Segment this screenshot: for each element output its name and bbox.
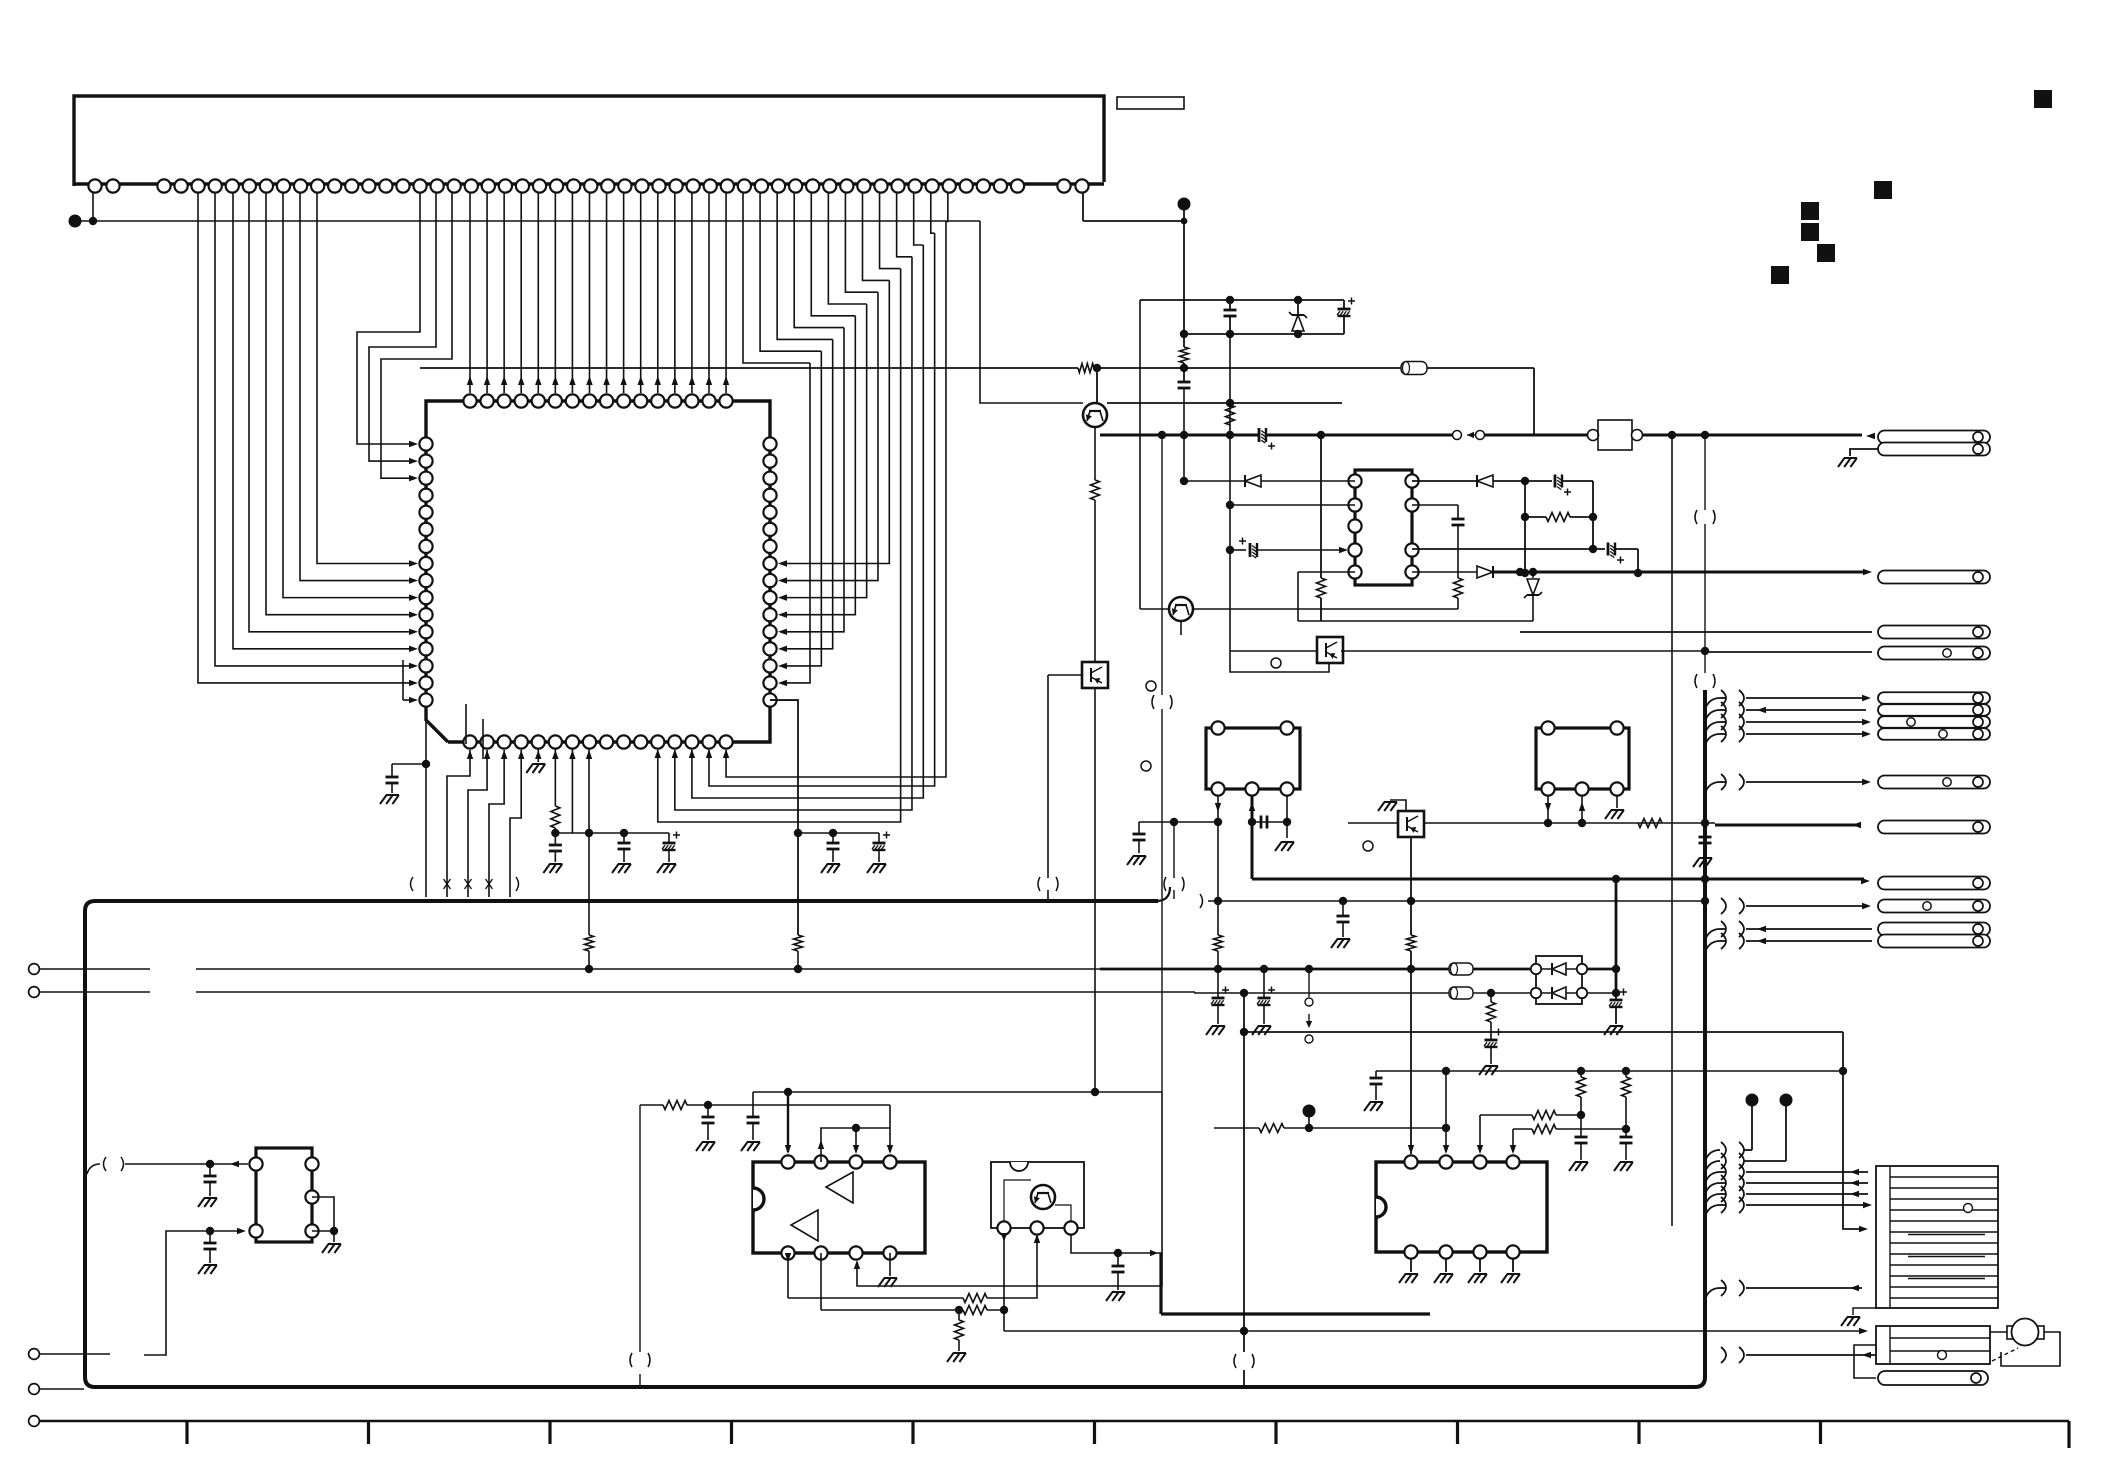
diode D row481 [1184, 480, 1245, 482]
connector pill 827 [1878, 821, 1990, 834]
IC6 op-amp box [753, 1162, 925, 1253]
connector pills top pair [1878, 431, 1990, 444]
resistor R x1218 [1214, 935, 1223, 951]
motor M [2007, 1326, 2015, 1339]
IC5 small dip [256, 1148, 312, 1242]
wire PC1 left leg [1048, 674, 1082, 676]
wire pin to vcc node [1082, 193, 1084, 221]
connector pill 782 [1878, 776, 1990, 789]
wire straight drops to IC top pins [469, 193, 471, 393]
wire Q1 east [1107, 402, 1342, 404]
capacitor C x1626 [1625, 1129, 1627, 1137]
connector CN pins [88, 179, 101, 192]
wire opto row y823 [1424, 822, 1715, 824]
IC4 box right [1536, 728, 1629, 789]
wire into CN3 row1 [1004, 1330, 1862, 1332]
resistor R y1298 [963, 1294, 987, 1303]
wire pin 1071 right [1071, 1234, 1162, 1253]
resistor R row517 [1525, 516, 1546, 518]
wire left cap x1140 [1139, 821, 1218, 823]
paren marks group [411, 877, 414, 891]
ground CN2 [1853, 1308, 1876, 1315]
wire loop right [857, 1092, 1162, 1286]
wire rail y1128 [1214, 1127, 1259, 1129]
wire row572 left [1298, 571, 1355, 573]
black squares [2034, 90, 2052, 108]
wire IC1 corner drop with cap [425, 720, 427, 897]
wire pin7 drop [571, 749, 573, 833]
capacitor C x708 [707, 1105, 709, 1117]
wire pin8 long drop [588, 749, 590, 935]
IC1 top pins [463, 394, 476, 407]
capacitor C x753 [752, 1092, 754, 1117]
capacitor group C+C right [798, 832, 879, 834]
connector pill group4 [1878, 692, 1990, 704]
testpoint circles [1146, 681, 1156, 691]
wire nested drops to IC left pins 1-3 [357, 193, 420, 444]
IC7 motor driver box [991, 1162, 1084, 1228]
wires into CN2 [1706, 1172, 1720, 1181]
inductor FB1 [1449, 963, 1473, 975]
wire x=1672 vertical [1671, 435, 1673, 1226]
wire pin16 stub [402, 660, 404, 700]
thick rail y=435 [1100, 434, 1259, 437]
transistor Q3 [1031, 1185, 1055, 1209]
wire staircase right bundle [743, 193, 810, 363]
wire right vertical x=798 [770, 700, 798, 935]
capacitor C x1581 [1580, 1115, 1582, 1137]
IC1 left pins [419, 437, 432, 450]
wire IC5 pin1 in [87, 1164, 100, 1174]
bus thick frame [85, 690, 1705, 1387]
wire rail y1105 [640, 1104, 663, 1106]
wire row505 right cap [1412, 504, 1458, 506]
resistor R y1128 [1259, 1124, 1284, 1133]
IC8 dip box [1376, 1162, 1547, 1252]
diode zener vertical [1297, 300, 1299, 315]
IC1 main QFP outline [426, 401, 770, 742]
wire pin 788 bottom [787, 1253, 789, 1298]
connector pills 929/941 [1878, 923, 1990, 936]
resistor chain x1491 [1487, 989, 1495, 997]
resistor R x1411 [1407, 935, 1416, 951]
resistor R x798 [794, 935, 803, 951]
connector CN2 ribbon box [1876, 1166, 1998, 1308]
black dots pair [1746, 1094, 1759, 1107]
wire x1616 drop [1615, 879, 1618, 993]
wire bundle left drops [198, 193, 412, 683]
capacitor C+ x1264 below [1260, 965, 1268, 973]
diode D row481 right [1412, 480, 1477, 482]
wire op-amp top rail y1092 [753, 1091, 1162, 1093]
thick rail y=879 [1251, 796, 1254, 879]
op-amp U1A triangle [826, 1172, 853, 1203]
resistor R row823 [1638, 819, 1662, 828]
terminal dot [1303, 1105, 1316, 1118]
ground IC1 pin5 [537, 749, 539, 762]
capacitor C+ x1218 below [1214, 965, 1222, 973]
optocoupler PC1 [1082, 662, 1108, 688]
wire pin3 chain [1479, 1115, 1481, 1152]
resistor R x1581 [1580, 1071, 1582, 1077]
resistor R y1310 [963, 1306, 987, 1315]
resistor R x959 [958, 1310, 960, 1320]
capacitor C+ x1616 [1615, 993, 1617, 1000]
wire Q2 bottom row [1180, 621, 1182, 635]
wire IC5 right gnd [312, 1197, 334, 1231]
capacitor C x1118 [1117, 1253, 1119, 1266]
optocoupler PC3 [1398, 811, 1424, 837]
resistor R pin6 chain [554, 749, 556, 806]
thick jog rails [1150, 1250, 1158, 1256]
connector pill 883 [1878, 877, 1990, 890]
diode bridge D5/D6 [1536, 956, 1582, 1004]
IC1 right pins [763, 437, 776, 450]
resistor R below Q1 [1091, 480, 1100, 500]
capacitor C x1705 [1704, 823, 1706, 837]
wire pin 821 bottom [820, 1253, 822, 1310]
transistor Q1 [1096, 368, 1098, 403]
wire row505 [1230, 504, 1355, 506]
wire pin1 drop [92, 193, 94, 221]
connector pill 655 [1878, 647, 1990, 660]
op-amp U1B triangle [791, 1210, 818, 1241]
wire audio L y969 [40, 968, 150, 970]
capacitor C x1184 [1178, 381, 1191, 384]
resistor R x1230 [1226, 405, 1235, 425]
diode zener x1533 [1532, 572, 1534, 578]
wire bus line y=368 [420, 367, 1078, 369]
capacitor C pin2 [209, 1231, 211, 1243]
wire x1843 to connector [1843, 1032, 1862, 1229]
resistor R below bus [585, 935, 594, 951]
wire PC2 loop [1230, 651, 1329, 672]
connector CN label box [1117, 97, 1184, 109]
wire pin2 up [1445, 1071, 1447, 1152]
ground pill pair [1850, 449, 1878, 456]
wire pin 1004 down [1003, 1234, 1005, 1331]
thick rail y823 right [1715, 824, 1858, 827]
capacitor C row822 [1252, 821, 1287, 823]
ruler bottom [40, 1420, 2069, 1423]
thick rail y=572 [1493, 571, 1864, 574]
capacitor C loop [1229, 300, 1231, 310]
wire x=1230 vertical [1229, 334, 1231, 651]
motor wires [1990, 1331, 2007, 1333]
wire GND rail y=221 [69, 215, 82, 228]
resistor R y1105 [663, 1101, 687, 1110]
optocoupler PC2 [1317, 637, 1343, 663]
connector CN top box [74, 96, 1104, 186]
wire right link y=221 corner [980, 221, 1083, 403]
wire left loop x=1140 [1139, 300, 1141, 435]
IC1 bottom pins [463, 735, 476, 748]
jumper box JP [1588, 430, 1599, 441]
connector pill 577 [1878, 571, 1990, 584]
capacitor C+ row550 right [1412, 548, 1605, 550]
wire top loop y=300 [1140, 299, 1344, 301]
wire x1525 drop [1524, 481, 1526, 573]
capacitor group C+C left [589, 832, 669, 834]
diode D row572 [1412, 571, 1477, 573]
resistor R x1626 [1625, 1071, 1627, 1077]
wire x640 drop [639, 1105, 641, 1352]
connector pill 906 [1878, 900, 1990, 913]
resistor R x1458 [1454, 578, 1463, 598]
capacitor C x1376 [1375, 1071, 1377, 1078]
resistor R y1129 [1532, 1125, 1556, 1134]
wire IC5 pin2 in [40, 1353, 110, 1355]
ground pin 890 [889, 1253, 891, 1276]
wire loop bottom y=334 [1184, 333, 1344, 335]
capacitor C+ loop [1343, 300, 1345, 309]
wire into CN3 row2 [1721, 1347, 1726, 1363]
resistor R x1321 [1320, 435, 1322, 578]
wire IC3 pin drops [1217, 796, 1219, 935]
wire bridge out [1587, 968, 1616, 971]
IC2 8pin box [1355, 470, 1412, 585]
wire y1032 [1244, 1031, 1843, 1033]
capacitor C+ row550 [1230, 549, 1246, 551]
connector pill bottom [1878, 1371, 1988, 1385]
wire rail y1071 [1376, 1070, 1843, 1072]
inductor bead y368 [1401, 362, 1427, 375]
wire vcc vertical x=1184 [1183, 221, 1185, 347]
wire IC1 bottom pins 1-4 jog to bus [447, 750, 470, 897]
wire Q3 internal [1004, 1180, 1031, 1222]
wire x1244 drop [1243, 1032, 1245, 1352]
wire stub circle 1389 [40, 1388, 84, 1390]
jumper point x1309 [1305, 965, 1313, 973]
transistor Q2 [1169, 597, 1193, 621]
wire pin drops top [787, 1092, 789, 1152]
wire x1162 long vertical [1161, 435, 1163, 695]
capacitor C x1343 [1339, 897, 1347, 905]
resistor R y1115 [1532, 1111, 1556, 1120]
wire x=1705 vertical thin top [1704, 435, 1706, 510]
IC3 box left [1206, 728, 1300, 789]
connector pill 632 [1878, 626, 1990, 639]
capacitor C pin1 [209, 1164, 211, 1176]
wire audio R y992 [40, 991, 150, 993]
connector CN3 lower box [1876, 1326, 1990, 1364]
capacitor C+ right [1525, 480, 1552, 482]
wire x1174 drop [1173, 822, 1175, 899]
resistor R x1184 [1180, 347, 1189, 363]
bus thin continuation y903 [1158, 887, 1170, 901]
terminal circles left [29, 964, 40, 975]
wire pin4 chain [1512, 1129, 1514, 1152]
IC1 pin1 marks [465, 704, 467, 744]
